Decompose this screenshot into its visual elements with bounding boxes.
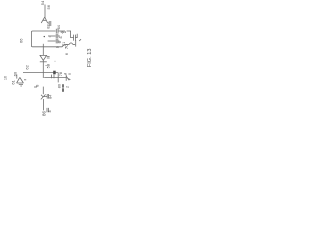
capacitor small bottom right xyxy=(47,108,48,112)
svg-text:2: 2 xyxy=(65,86,69,88)
wire antenna feed vertical xyxy=(44,5,46,18)
antenna symbol xyxy=(41,17,47,23)
svg-text:60: 60 xyxy=(12,71,17,76)
faint mark xyxy=(55,61,56,62)
svg-text:82: 82 xyxy=(47,24,51,28)
wire rail with hop xyxy=(58,45,69,47)
transistor Q2 base bar xyxy=(65,74,67,80)
wire after hop xyxy=(73,44,75,46)
svg-text:8: 8 xyxy=(48,110,52,112)
svg-text:66: 66 xyxy=(19,38,24,43)
svg-text:56: 56 xyxy=(46,4,51,9)
junction label blob 76 xyxy=(53,71,56,75)
wire top rail right xyxy=(58,31,73,38)
capacitor plates bottom xyxy=(47,94,48,99)
svg-text:80: 80 xyxy=(58,84,62,88)
ground triangle xyxy=(17,77,24,83)
svg-text:84: 84 xyxy=(49,95,53,99)
wire row3 right xyxy=(58,40,60,42)
svg-text:70: 70 xyxy=(64,44,69,50)
wire vertical to rail xyxy=(42,62,44,78)
wire corner down and across xyxy=(58,73,66,78)
wire main rail xyxy=(23,72,58,74)
wire op-amp input vertical xyxy=(42,47,44,56)
wire stub below corner xyxy=(57,77,59,82)
stub tick + label (left of bottom chain) xyxy=(34,86,37,88)
capacitor beside op-amp xyxy=(47,56,50,58)
capacitor pair below rail xyxy=(44,75,58,79)
capacitor C2 plates xyxy=(49,21,51,26)
wire bottom chain top xyxy=(42,87,44,95)
tiny mark top-right of FIG xyxy=(79,39,81,41)
transistor X symbol xyxy=(41,94,46,99)
svg-text:8: 8 xyxy=(36,85,40,87)
wire bottom chain lower xyxy=(43,99,45,110)
wire row3 xyxy=(48,40,56,42)
label bar 44a xyxy=(62,84,64,87)
wire bracket up xyxy=(75,34,77,38)
dot b xyxy=(44,36,45,37)
svg-text:58: 58 xyxy=(46,63,51,68)
wire hop bridge xyxy=(69,43,73,45)
op-amp U1 triangle xyxy=(40,55,47,60)
svg-text:4: 4 xyxy=(63,73,67,75)
ground ticks xyxy=(19,85,23,86)
svg-text:6: 6 xyxy=(64,52,69,55)
svg-text:61: 61 xyxy=(11,79,16,84)
capacitor C5 plates xyxy=(56,34,58,39)
wire antenna to cap xyxy=(48,22,50,24)
svg-text:16: 16 xyxy=(4,76,8,80)
junction stub xyxy=(42,44,44,47)
svg-text:86: 86 xyxy=(42,110,47,116)
wire row2 xyxy=(48,35,56,37)
wire T bar xyxy=(40,61,47,63)
collector tick xyxy=(68,73,70,75)
tick right xyxy=(24,79,26,81)
svg-text:1: 1 xyxy=(62,42,66,44)
wire top rail and left loop xyxy=(31,31,58,47)
capacitor plate tall xyxy=(75,40,77,47)
svg-text:54: 54 xyxy=(40,0,45,5)
svg-text:62: 62 xyxy=(24,64,29,69)
capacitor C3 plates (top rail) xyxy=(56,29,58,34)
dash minus xyxy=(50,36,51,37)
antenna feed stub xyxy=(16,74,18,78)
capacitor C6 plates xyxy=(56,39,58,44)
svg-text:64: 64 xyxy=(57,25,61,29)
transistor Q2 emitter xyxy=(66,76,69,80)
svg-text:FIG. 13: FIG. 13 xyxy=(87,49,93,68)
emitter arrow tick xyxy=(68,79,70,80)
wire op-amp out xyxy=(42,60,44,61)
tick by 58 xyxy=(46,65,47,67)
label bar 44b xyxy=(62,88,64,92)
capacitor C4 plates xyxy=(74,35,76,41)
wire row2 right xyxy=(58,35,60,37)
wire tick right xyxy=(45,96,47,98)
